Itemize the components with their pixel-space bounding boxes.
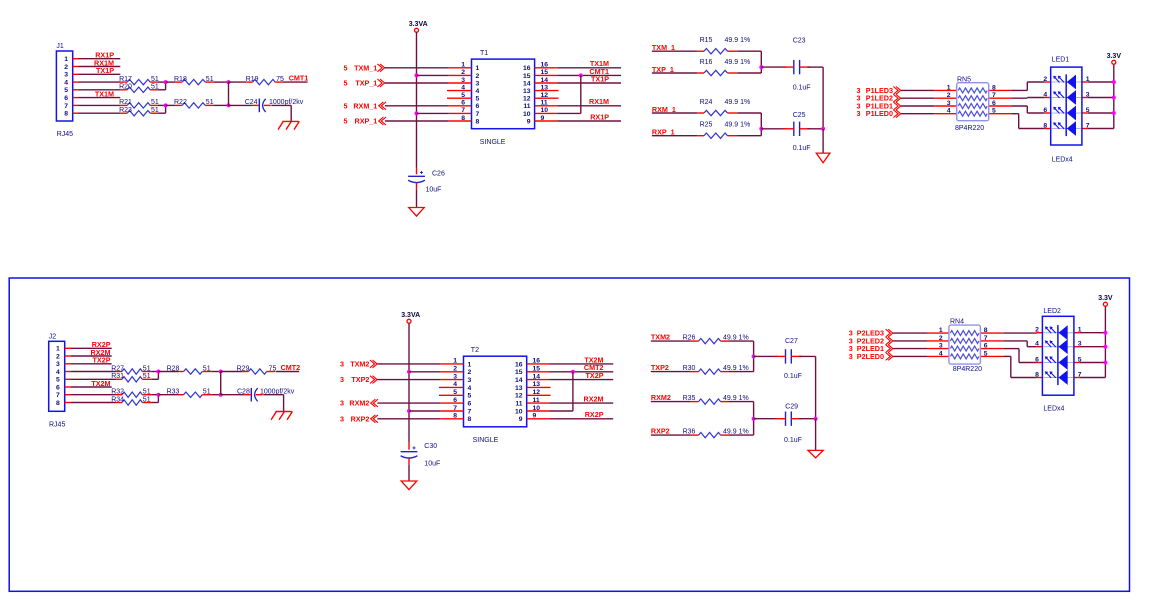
svg-text:3: 3 bbox=[56, 361, 60, 368]
svg-text:TXM_1: TXM_1 bbox=[652, 43, 675, 52]
svg-text:C25: C25 bbox=[793, 112, 806, 119]
svg-text:8P4R220: 8P4R220 bbox=[955, 125, 984, 132]
svg-text:11: 11 bbox=[541, 100, 548, 107]
svg-text:1: 1 bbox=[1078, 327, 1082, 334]
svg-text:5: 5 bbox=[344, 117, 348, 126]
svg-text:1: 1 bbox=[476, 65, 480, 72]
svg-text:TX2P: TX2P bbox=[93, 356, 111, 365]
svg-text:4: 4 bbox=[468, 385, 472, 392]
svg-text:49.9 1%: 49.9 1% bbox=[725, 59, 751, 66]
svg-text:51: 51 bbox=[206, 76, 214, 83]
svg-text:1: 1 bbox=[939, 327, 943, 334]
svg-text:8: 8 bbox=[56, 400, 60, 407]
svg-text:16: 16 bbox=[541, 62, 549, 69]
svg-text:R21: R21 bbox=[119, 99, 132, 106]
svg-text:14: 14 bbox=[523, 80, 531, 87]
svg-text:6: 6 bbox=[992, 100, 996, 107]
svg-text:12: 12 bbox=[515, 393, 523, 400]
svg-text:5: 5 bbox=[1078, 357, 1082, 364]
svg-text:2: 2 bbox=[461, 69, 465, 76]
svg-text:RXP_1: RXP_1 bbox=[355, 117, 378, 126]
svg-text:4: 4 bbox=[1035, 341, 1039, 348]
svg-text:RN5: RN5 bbox=[957, 77, 971, 84]
svg-text:49.9 1%: 49.9 1% bbox=[725, 122, 751, 129]
svg-text:RX2M: RX2M bbox=[584, 395, 604, 404]
svg-text:51: 51 bbox=[143, 396, 151, 403]
svg-text:R25: R25 bbox=[700, 122, 713, 129]
svg-text:2: 2 bbox=[939, 335, 943, 342]
svg-text:RX2P: RX2P bbox=[585, 410, 604, 419]
svg-text:7: 7 bbox=[992, 92, 996, 99]
svg-text:7: 7 bbox=[984, 335, 988, 342]
svg-text:2: 2 bbox=[1043, 76, 1047, 83]
svg-text:R32: R32 bbox=[111, 389, 124, 396]
svg-text:8: 8 bbox=[476, 118, 480, 125]
svg-text:T1: T1 bbox=[480, 50, 488, 57]
svg-text:4: 4 bbox=[1043, 92, 1047, 99]
svg-text:16: 16 bbox=[523, 65, 531, 72]
svg-text:7: 7 bbox=[1078, 372, 1082, 379]
svg-text:C28: C28 bbox=[237, 389, 250, 396]
svg-text:3: 3 bbox=[64, 72, 68, 79]
svg-text:TX1P: TX1P bbox=[96, 66, 114, 75]
svg-text:16: 16 bbox=[533, 358, 541, 365]
svg-text:R23: R23 bbox=[119, 107, 132, 114]
svg-text:LED1: LED1 bbox=[1052, 57, 1070, 64]
svg-text:15: 15 bbox=[541, 69, 549, 76]
svg-text:51: 51 bbox=[203, 365, 211, 372]
svg-text:5: 5 bbox=[992, 108, 996, 115]
svg-text:R18: R18 bbox=[174, 76, 187, 83]
svg-text:11: 11 bbox=[523, 103, 530, 110]
svg-text:3: 3 bbox=[476, 80, 480, 87]
svg-text:TX2M: TX2M bbox=[91, 379, 110, 388]
svg-text:J1: J1 bbox=[56, 43, 64, 50]
svg-text:R16: R16 bbox=[700, 59, 713, 66]
svg-text:2: 2 bbox=[1035, 327, 1039, 334]
svg-text:15: 15 bbox=[533, 366, 541, 373]
svg-text:8P4R220: 8P4R220 bbox=[953, 366, 982, 373]
svg-text:TXM_1: TXM_1 bbox=[354, 63, 377, 72]
svg-text:6: 6 bbox=[461, 100, 465, 107]
svg-text:7: 7 bbox=[56, 392, 60, 399]
svg-text:3.3VA: 3.3VA bbox=[401, 312, 420, 319]
svg-text:2: 2 bbox=[56, 353, 60, 360]
svg-text:TX1M: TX1M bbox=[95, 89, 114, 98]
svg-text:3: 3 bbox=[453, 373, 457, 380]
svg-text:3.3V: 3.3V bbox=[1098, 295, 1113, 302]
svg-text:4: 4 bbox=[947, 108, 951, 115]
svg-text:SINGLE: SINGLE bbox=[480, 139, 506, 146]
svg-text:7: 7 bbox=[453, 405, 457, 412]
svg-text:3: 3 bbox=[340, 399, 344, 408]
svg-text:51: 51 bbox=[206, 99, 214, 106]
svg-text:2: 2 bbox=[947, 92, 951, 99]
svg-text:3: 3 bbox=[461, 77, 465, 84]
svg-text:49.9 1%: 49.9 1% bbox=[725, 37, 751, 44]
svg-text:1: 1 bbox=[461, 62, 465, 69]
svg-text:49.9 1%: 49.9 1% bbox=[725, 99, 751, 106]
svg-text:7: 7 bbox=[468, 408, 472, 415]
svg-text:5: 5 bbox=[984, 350, 988, 357]
svg-text:12: 12 bbox=[541, 92, 549, 99]
svg-text:TX1P: TX1P bbox=[591, 74, 609, 83]
svg-text:RJ45: RJ45 bbox=[57, 131, 73, 138]
svg-text:RJ45: RJ45 bbox=[49, 421, 65, 428]
svg-text:TX2P: TX2P bbox=[586, 371, 604, 380]
svg-text:RXP2: RXP2 bbox=[651, 427, 670, 436]
svg-text:75: 75 bbox=[269, 365, 277, 372]
svg-text:3.3V: 3.3V bbox=[1107, 53, 1122, 60]
svg-text:R28: R28 bbox=[167, 365, 180, 372]
svg-text:R30: R30 bbox=[683, 365, 696, 372]
svg-text:R15: R15 bbox=[700, 37, 713, 44]
svg-text:R26: R26 bbox=[683, 335, 696, 342]
svg-text:C24: C24 bbox=[245, 99, 258, 106]
svg-text:1: 1 bbox=[1086, 76, 1090, 83]
svg-text:14: 14 bbox=[533, 373, 541, 380]
svg-text:3: 3 bbox=[1086, 92, 1090, 99]
svg-text:10uF: 10uF bbox=[424, 460, 440, 467]
svg-text:4: 4 bbox=[56, 369, 60, 376]
svg-text:5: 5 bbox=[344, 79, 348, 88]
svg-text:13: 13 bbox=[541, 84, 549, 91]
svg-text:8: 8 bbox=[453, 413, 457, 420]
svg-text:15: 15 bbox=[523, 73, 531, 80]
svg-text:RXP_1: RXP_1 bbox=[652, 128, 675, 137]
svg-text:5: 5 bbox=[344, 101, 348, 110]
svg-text:TXP_1: TXP_1 bbox=[355, 79, 377, 88]
svg-text:9: 9 bbox=[541, 115, 545, 122]
svg-text:51: 51 bbox=[203, 389, 211, 396]
svg-text:8: 8 bbox=[461, 115, 465, 122]
svg-text:R35: R35 bbox=[683, 395, 696, 402]
svg-text:C27: C27 bbox=[785, 338, 798, 345]
svg-text:R36: R36 bbox=[683, 429, 696, 436]
svg-text:3: 3 bbox=[340, 359, 344, 368]
svg-text:RX1P: RX1P bbox=[590, 112, 609, 121]
svg-text:R24: R24 bbox=[700, 99, 713, 106]
svg-text:3: 3 bbox=[947, 100, 951, 107]
svg-text:P1LED0: P1LED0 bbox=[866, 109, 893, 118]
svg-text:0.1uF: 0.1uF bbox=[784, 437, 802, 444]
svg-text:RXM2: RXM2 bbox=[651, 393, 671, 402]
svg-text:6: 6 bbox=[468, 401, 472, 408]
svg-text:13: 13 bbox=[523, 88, 531, 95]
svg-text:8: 8 bbox=[64, 111, 68, 118]
svg-text:C29: C29 bbox=[785, 404, 798, 411]
svg-text:SINGLE: SINGLE bbox=[473, 437, 499, 444]
svg-text:LEDx4: LEDx4 bbox=[1052, 157, 1073, 164]
svg-text:10: 10 bbox=[523, 111, 531, 118]
svg-text:1: 1 bbox=[64, 56, 68, 63]
svg-text:3: 3 bbox=[857, 109, 861, 118]
svg-text:1: 1 bbox=[468, 361, 472, 368]
svg-text:2: 2 bbox=[468, 369, 472, 376]
svg-text:5: 5 bbox=[56, 377, 60, 384]
svg-text:RX1M: RX1M bbox=[589, 97, 609, 106]
svg-text:51: 51 bbox=[143, 389, 151, 396]
svg-text:7: 7 bbox=[476, 111, 480, 118]
svg-text:R17: R17 bbox=[119, 76, 132, 83]
svg-text:CMT1: CMT1 bbox=[289, 74, 309, 83]
svg-text:5: 5 bbox=[461, 92, 465, 99]
svg-text:5: 5 bbox=[1086, 107, 1090, 114]
svg-text:7: 7 bbox=[1086, 123, 1090, 130]
svg-text:2: 2 bbox=[476, 73, 480, 80]
svg-text:3: 3 bbox=[340, 375, 344, 384]
svg-text:2: 2 bbox=[453, 366, 457, 373]
svg-text:TXM2: TXM2 bbox=[651, 333, 670, 342]
svg-text:TXP_1: TXP_1 bbox=[652, 65, 674, 74]
svg-text:6: 6 bbox=[476, 103, 480, 110]
svg-text:3: 3 bbox=[1078, 341, 1082, 348]
svg-text:7: 7 bbox=[461, 107, 465, 114]
svg-text:12: 12 bbox=[533, 389, 541, 396]
svg-text:6: 6 bbox=[453, 397, 457, 404]
svg-text:10: 10 bbox=[541, 107, 549, 114]
svg-text:8: 8 bbox=[468, 416, 472, 423]
svg-text:0.1uF: 0.1uF bbox=[784, 373, 802, 380]
svg-text:C30: C30 bbox=[424, 443, 437, 450]
svg-text:13: 13 bbox=[515, 385, 523, 392]
svg-text:P2LED0: P2LED0 bbox=[857, 352, 884, 361]
svg-text:T2: T2 bbox=[471, 347, 479, 354]
svg-text:5: 5 bbox=[476, 96, 480, 103]
svg-text:5: 5 bbox=[344, 63, 348, 72]
svg-text:11: 11 bbox=[533, 397, 540, 404]
svg-text:R22: R22 bbox=[174, 99, 187, 106]
svg-text:TXP2: TXP2 bbox=[351, 375, 369, 384]
svg-text:3: 3 bbox=[468, 377, 472, 384]
svg-text:6: 6 bbox=[1043, 107, 1047, 114]
svg-text:RXM2: RXM2 bbox=[349, 399, 369, 408]
svg-text:0.1uF: 0.1uF bbox=[793, 85, 811, 92]
svg-text:TXP2: TXP2 bbox=[651, 363, 669, 372]
svg-text:CMT2: CMT2 bbox=[281, 363, 301, 372]
svg-text:6: 6 bbox=[1035, 357, 1039, 364]
svg-text:R20: R20 bbox=[119, 84, 132, 91]
svg-text:R33: R33 bbox=[167, 389, 180, 396]
svg-text:12: 12 bbox=[523, 96, 531, 103]
svg-text:4: 4 bbox=[939, 350, 943, 357]
svg-text:8: 8 bbox=[1035, 372, 1039, 379]
svg-text:9: 9 bbox=[519, 416, 523, 423]
svg-text:RXP2: RXP2 bbox=[351, 414, 370, 423]
svg-text:6: 6 bbox=[984, 343, 988, 350]
svg-text:6: 6 bbox=[56, 384, 60, 391]
svg-text:3: 3 bbox=[849, 352, 853, 361]
svg-text:3: 3 bbox=[939, 343, 943, 350]
svg-text:R19: R19 bbox=[246, 76, 259, 83]
svg-text:1: 1 bbox=[453, 358, 457, 365]
svg-text:4: 4 bbox=[64, 80, 68, 87]
svg-text:10: 10 bbox=[533, 405, 541, 412]
svg-text:C23: C23 bbox=[793, 38, 806, 45]
svg-text:4: 4 bbox=[461, 84, 465, 91]
svg-text:8: 8 bbox=[992, 84, 996, 91]
svg-text:6: 6 bbox=[64, 95, 68, 102]
svg-text:14: 14 bbox=[541, 77, 549, 84]
svg-text:0.1uF: 0.1uF bbox=[793, 145, 811, 152]
svg-text:13: 13 bbox=[533, 381, 541, 388]
svg-text:RXM_1: RXM_1 bbox=[652, 105, 676, 114]
svg-text:1: 1 bbox=[947, 84, 951, 91]
svg-text:2: 2 bbox=[64, 64, 68, 71]
svg-text:10: 10 bbox=[515, 408, 523, 415]
svg-text:16: 16 bbox=[515, 361, 523, 368]
svg-text:11: 11 bbox=[515, 401, 522, 408]
svg-text:R31: R31 bbox=[111, 373, 124, 380]
svg-text:RN4: RN4 bbox=[950, 319, 964, 326]
svg-text:5: 5 bbox=[468, 393, 472, 400]
svg-text:9: 9 bbox=[527, 118, 531, 125]
svg-text:1: 1 bbox=[56, 346, 60, 353]
svg-text:7: 7 bbox=[64, 103, 68, 110]
svg-text:51: 51 bbox=[143, 365, 151, 372]
svg-text:10uF: 10uF bbox=[426, 187, 442, 194]
svg-text:R34: R34 bbox=[111, 396, 124, 403]
svg-text:LEDx4: LEDx4 bbox=[1043, 406, 1064, 413]
svg-text:5: 5 bbox=[453, 389, 457, 396]
svg-text:3.3VA: 3.3VA bbox=[409, 21, 428, 28]
svg-text:J2: J2 bbox=[49, 334, 57, 341]
svg-text:LED2: LED2 bbox=[1043, 308, 1061, 315]
svg-text:R27: R27 bbox=[111, 365, 124, 372]
svg-text:14: 14 bbox=[515, 377, 523, 384]
svg-text:15: 15 bbox=[515, 369, 523, 376]
svg-text:9: 9 bbox=[533, 413, 537, 420]
svg-text:4: 4 bbox=[476, 88, 480, 95]
svg-text:C26: C26 bbox=[432, 171, 445, 178]
svg-text:3: 3 bbox=[340, 414, 344, 423]
svg-text:R29: R29 bbox=[237, 365, 250, 372]
svg-text:5: 5 bbox=[64, 87, 68, 94]
svg-text:RXM_1: RXM_1 bbox=[353, 101, 377, 110]
svg-text:8: 8 bbox=[1043, 123, 1047, 130]
svg-text:4: 4 bbox=[453, 381, 457, 388]
svg-text:8: 8 bbox=[984, 327, 988, 334]
svg-text:TXM2: TXM2 bbox=[350, 359, 369, 368]
svg-text:51: 51 bbox=[143, 373, 151, 380]
